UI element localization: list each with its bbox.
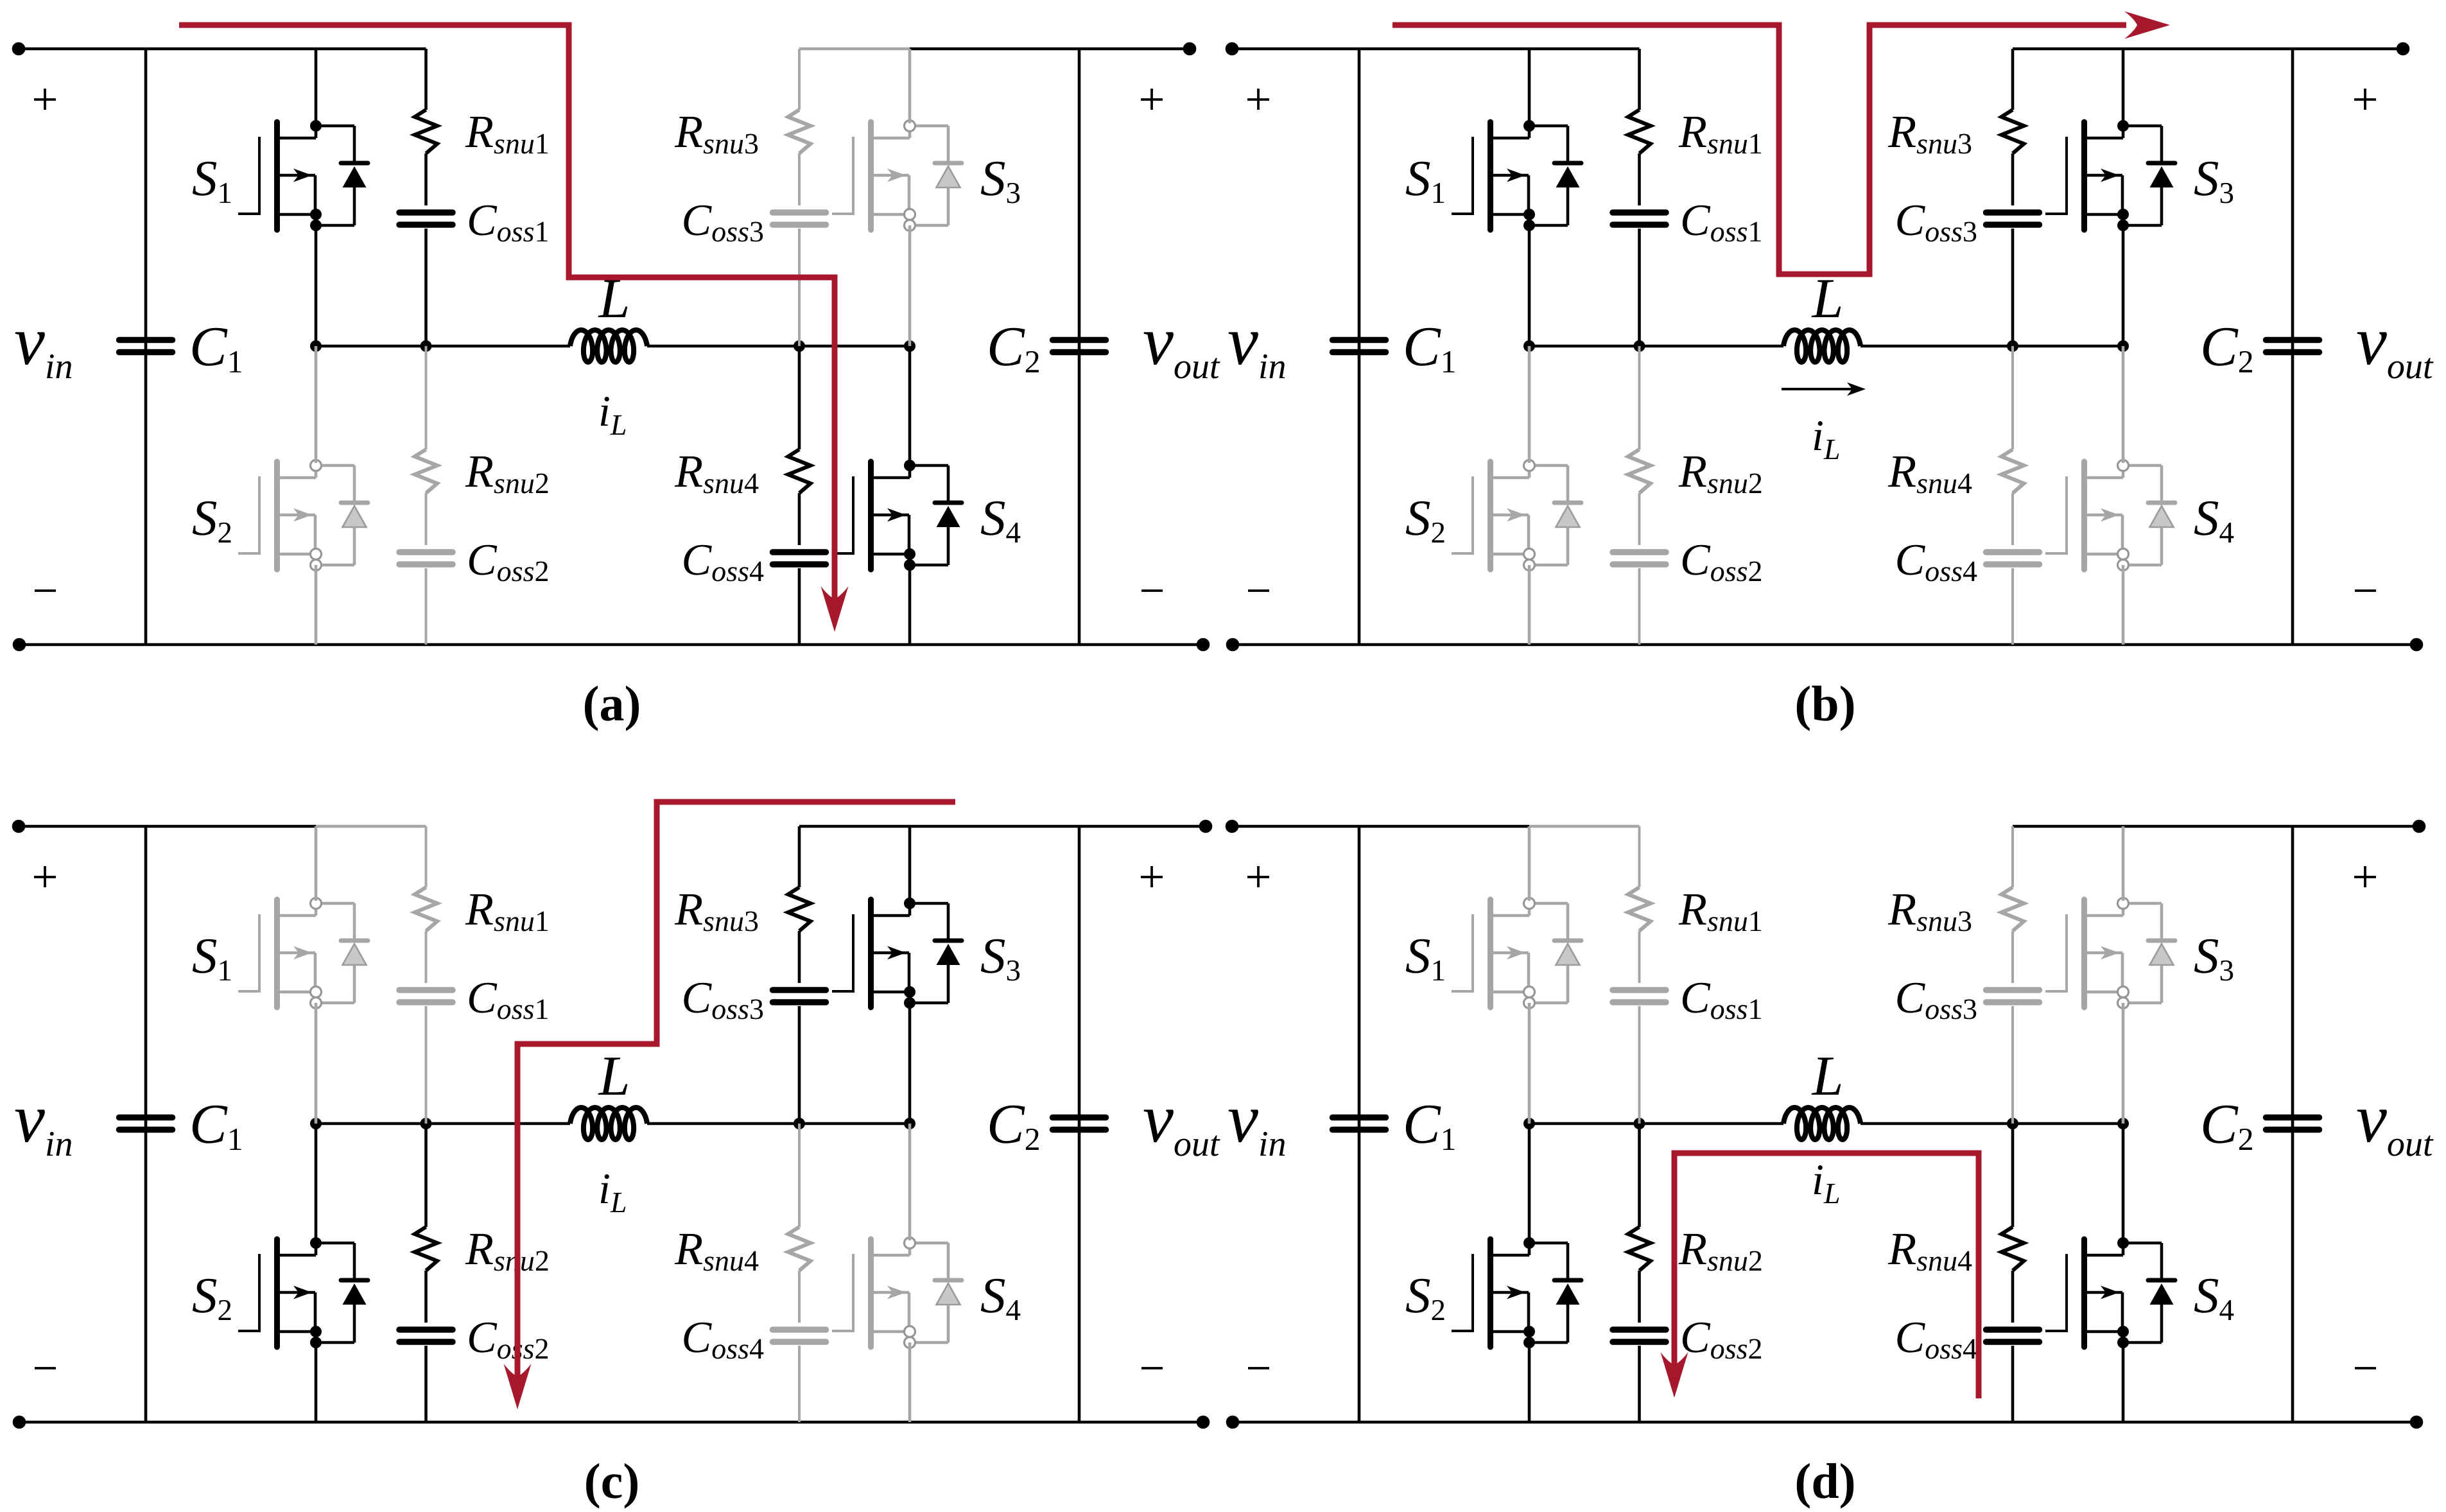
wire drain of S3 to top rail (b) [2122, 49, 2125, 123]
body diode of S4 (c) [910, 1243, 962, 1343]
wire source of S1 to switch node (b) [1528, 225, 1531, 346]
node bottom rail left (d) [1226, 1416, 1240, 1429]
plus sign vout (c) [1141, 876, 1163, 878]
transistor S4 (c) body [871, 1239, 910, 1347]
label L (a) [598, 280, 628, 317]
gate of S1 (a) [238, 137, 259, 215]
wire Rsnu2 top (d) [1638, 1124, 1641, 1227]
capacitor Coss2 (d) [1613, 1326, 1666, 1333]
body diode of S1 (b) [1529, 126, 1581, 225]
transistor S3 (d) body [2085, 899, 2124, 1007]
terminal circle drain of S2 (a) [311, 460, 322, 471]
wire top rail over S1 (a) [316, 48, 426, 51]
label Rsnu1 (d) [1679, 894, 1762, 932]
wire top rail right (a) [910, 48, 1190, 51]
arrow of S2 (a) [293, 508, 312, 522]
wire source of S3 to switch node (a) [908, 225, 912, 346]
wire source of S4 to bottom rail (d) [2122, 1343, 2125, 1422]
wire Coss4 bottom (b) [2011, 568, 2014, 645]
label Rsnu2 (c) [465, 1234, 548, 1271]
wire source of S2 to bottom rail (c) [315, 1343, 318, 1422]
plus sign vin (a) [34, 98, 56, 101]
label Rsnu1 (a) [465, 117, 548, 154]
label L (b) [1812, 280, 1841, 317]
wire drain of S1 to top rail (b) [1528, 49, 1531, 123]
wire top rail left (b) [1232, 48, 1529, 51]
wire C1 branch (a) [144, 49, 148, 645]
capacitor C1 (b) [1333, 337, 1386, 343]
node SW1 (d) [1523, 1118, 1535, 1129]
wire top rail right (c) [910, 825, 1206, 828]
label S3 (a) [981, 162, 1019, 204]
transistor S2 (a) body [277, 462, 317, 569]
wire source of S4 to bottom rail (b) [2122, 565, 2125, 645]
node drain of S1 (b) [1523, 120, 1535, 132]
label Coss1 (a) [469, 205, 548, 242]
wire Rsnu1 top (d) [1638, 826, 1641, 887]
label Rsnu4 (a) [675, 456, 759, 494]
arrow of S3 (c) [887, 946, 906, 960]
wire drain of S3 to top rail (a) [908, 49, 912, 123]
wire top rail left (a) [19, 48, 316, 51]
wire Rsnu4 top (d) [2011, 1124, 2015, 1227]
node SW1 (a) [310, 340, 322, 352]
body diode of S2 (a) [316, 465, 368, 565]
body diode of S4 (b) [2123, 465, 2175, 565]
wire Rsnu2 top (b) [1638, 346, 1641, 449]
wire source of S4 to bottom rail (a) [908, 565, 912, 645]
label Coss1 (d) [1683, 983, 1761, 1020]
current arrow (d) [1661, 1352, 1688, 1398]
label Coss3 (c) [684, 983, 763, 1020]
current arrow (c) [504, 1364, 532, 1409]
wire source of S1 to switch node (a) [315, 225, 318, 346]
transistor S1 (a) body [277, 122, 317, 230]
label Coss2 (a) [469, 545, 548, 582]
label Rsnu3 (c) [675, 894, 758, 932]
plus sign vin (d) [1247, 876, 1269, 878]
wire Rsnu3 top (a) [798, 49, 801, 110]
resistor Rsnu1 (d) [1628, 887, 1651, 931]
node top rail right (a) [1183, 42, 1197, 56]
node top rail left (d) [1226, 820, 1239, 833]
node drain of S2 (d) [1523, 1237, 1535, 1249]
label Rsnu3 (b) [1888, 117, 1972, 154]
arrow iL (b) [1782, 388, 1855, 390]
wire top rail left (c) [19, 825, 316, 828]
node drain of S1 (a) [310, 120, 322, 132]
body diode of S4 (d) [2123, 1243, 2175, 1343]
wire C1 branch (d) [1358, 826, 1361, 1422]
capacitor Coss2 (a) [399, 549, 453, 555]
wire top rail over S3 (c) [799, 825, 910, 828]
terminal circle drain of S3 (a) [905, 121, 915, 132]
label Rsnu1 (c) [465, 894, 548, 932]
node SW1-R (a) [421, 340, 432, 352]
terminal circle drain of S1 (d) [1524, 898, 1535, 909]
minus sign vout (b) [2355, 589, 2376, 592]
wire top rail over S1 (b) [1529, 48, 1640, 51]
wire drain of S4 to switch node (d) [2122, 1124, 2125, 1240]
node top rail left (b) [1226, 42, 1239, 56]
terminal circle drain of S1 (c) [311, 898, 322, 909]
resistor Rsnu1 (a) [415, 110, 437, 153]
wire switch-node rail (b) [1529, 345, 1783, 348]
wire Coss1 bottom (c) [425, 1006, 428, 1124]
wire switch-node rail (d) [1529, 1122, 1783, 1125]
wire Rsnu1 to Coss1 (a) [424, 153, 428, 205]
label Coss2 (b) [1683, 545, 1761, 582]
capacitor C2 (d) [2266, 1115, 2320, 1121]
node top rail left (a) [12, 42, 26, 56]
label Rsnu2 (b) [1679, 456, 1762, 494]
wire Rsnu1 top (a) [424, 49, 428, 110]
wire drain of S4 to switch node (b) [2122, 346, 2125, 463]
node bottom rail right (a) [1197, 638, 1210, 652]
wire Rsnu1 to Coss1 (c) [425, 931, 428, 983]
label Coss4 (a) [684, 545, 763, 582]
wire Rsnu3 to Coss3 (c) [798, 931, 801, 983]
node drain of S3 (c) [904, 898, 915, 909]
terminal circles source of S4 (b) [2118, 549, 2129, 560]
body diode of S3 (a) [910, 126, 962, 225]
label C2 (b) [2203, 328, 2252, 372]
resistor Rsnu3 (b) [2002, 110, 2024, 153]
arrow of S2 (d) [1507, 1286, 1525, 1299]
wire drain of S1 to top rail (c) [315, 826, 318, 901]
minus sign vout (d) [2355, 1367, 2376, 1369]
plus sign vout (b) [2354, 98, 2376, 101]
node SW1 (b) [1523, 340, 1535, 352]
wire source of S3 to switch node (b) [2122, 225, 2125, 346]
node SW2-R (c) [794, 1118, 805, 1129]
label C2 (d) [2203, 1106, 2252, 1150]
wire Coss3 bottom (b) [2011, 229, 2015, 346]
node SW2-R (d) [2007, 1118, 2018, 1129]
gate of S1 (d) [1452, 914, 1473, 993]
node top rail right (b) [2397, 42, 2410, 56]
wire switch-node rail (c) [316, 1122, 570, 1125]
gate of S1 (c) [238, 914, 259, 993]
node drain of S4 (a) [904, 460, 915, 471]
capacitor Coss1 (c) [399, 987, 453, 993]
wire drain of S2 to switch node (b) [1528, 346, 1531, 463]
wire Coss3 bottom (c) [798, 1006, 801, 1124]
transistor S4 (a) body [871, 462, 910, 569]
arrow of S1 (c) [293, 946, 312, 960]
wire source of S3 to switch node (c) [908, 1003, 912, 1124]
label Coss3 (d) [1897, 983, 1976, 1020]
wire drain of S2 to switch node (a) [315, 346, 318, 463]
plus sign vout (a) [1141, 98, 1163, 101]
terminal circles source of S2 (a) [311, 549, 322, 560]
capacitor Coss3 (c) [773, 987, 826, 993]
wire top rail left (d) [1232, 825, 1529, 828]
label S4 (d) [2194, 1279, 2233, 1320]
capacitor C2 (b) [2266, 337, 2320, 343]
inductor L (c) [570, 1108, 647, 1140]
label C1 (b) [1406, 328, 1455, 372]
plus sign vin (b) [1247, 98, 1269, 101]
label iL (a) [601, 397, 626, 435]
capacitor Coss3 (a) [773, 209, 826, 216]
wire C2 branch (b) [2291, 49, 2294, 645]
current path (a) [179, 25, 835, 615]
label S2 (b) [1406, 501, 1444, 543]
node top rail right (d) [2413, 820, 2426, 833]
gate of S1 (b) [1452, 137, 1473, 215]
wire drain of S1 to top rail (a) [315, 49, 318, 123]
wire Rsnu4 top (c) [798, 1124, 801, 1227]
label C1 (c) [193, 1106, 241, 1150]
arrow of S3 (a) [887, 169, 906, 182]
label S1 (a) [193, 162, 230, 203]
label Rsnu3 (d) [1888, 894, 1972, 932]
wire Coss1 bottom (d) [1638, 1006, 1641, 1124]
label Coss4 (d) [1897, 1323, 1977, 1359]
label Rsnu3 (a) [675, 117, 758, 154]
node bottom rail left (b) [1226, 638, 1240, 652]
terminal circle drain of S4 (b) [2118, 460, 2129, 471]
terminal circle drain of S4 (c) [905, 1238, 915, 1249]
node SW1-R (c) [421, 1118, 432, 1129]
label subfigure (d) [1797, 1463, 1853, 1509]
wire top rail right (b) [2123, 48, 2403, 51]
wire Coss4 bottom (d) [2011, 1346, 2015, 1422]
resistor Rsnu3 (d) [2002, 887, 2024, 931]
wire source of S2 to bottom rail (d) [1528, 1343, 1531, 1422]
label S3 (b) [2194, 162, 2233, 204]
wire Coss2 bottom (c) [424, 1346, 428, 1422]
capacitor Coss1 (b) [1613, 209, 1666, 216]
label vout (d) [2357, 1109, 2434, 1156]
capacitor Coss4 (d) [1986, 1326, 2040, 1333]
wire drain of S4 to switch node (c) [908, 1124, 912, 1240]
wire Rsnu3 top (b) [2011, 49, 2015, 110]
label vout (b) [2357, 332, 2434, 378]
node SW1-R (b) [1634, 340, 1645, 352]
wire C1 branch (b) [1358, 49, 1361, 645]
label iL (d) [1814, 1165, 1839, 1203]
resistor Rsnu1 (c) [415, 887, 437, 931]
wire drain of S2 to switch node (d) [1528, 1124, 1531, 1240]
body diode of S1 (c) [316, 903, 368, 1003]
resistor Rsnu4 (c) [788, 1227, 811, 1271]
label iL (c) [601, 1174, 626, 1212]
label Coss4 (b) [1897, 545, 1977, 582]
gate of S4 (c) [832, 1254, 853, 1332]
wire Rsnu1 to Coss1 (d) [1638, 931, 1641, 983]
arrow of S1 (a) [293, 169, 312, 182]
transistor S3 (a) body [871, 122, 910, 230]
arrow of S3 (d) [2101, 946, 2119, 960]
minus sign vin (d) [1248, 1367, 1269, 1369]
arrow of S4 (c) [887, 1286, 906, 1299]
node source of S2 (d) [1523, 1326, 1535, 1337]
capacitor C2 (c) [1053, 1115, 1106, 1121]
transistor S3 (c) body [871, 899, 910, 1007]
node bottom rail right (d) [2410, 1416, 2424, 1429]
arrow of S4 (d) [2101, 1286, 2119, 1299]
wire Rsnu3 top (d) [2011, 826, 2014, 887]
label vout (a) [1144, 332, 1220, 378]
minus sign vout (a) [1141, 589, 1163, 592]
wire Rsnu2 to Coss2 (a) [425, 493, 428, 545]
label vin (a) [15, 332, 72, 378]
node source of S3 (c) [904, 986, 915, 998]
current arrow (b) [2124, 12, 2170, 39]
wire Rsnu1 to Coss1 (b) [1638, 153, 1641, 205]
wire bottom rail (b) [1233, 643, 2416, 647]
arrow of S1 (b) [1507, 169, 1525, 182]
minus sign vout (c) [1141, 1367, 1163, 1369]
wire C1 branch (c) [144, 826, 148, 1422]
wire Rsnu4 top (a) [798, 346, 801, 449]
capacitor Coss3 (d) [1986, 987, 2040, 993]
node SW2 (d) [2117, 1118, 2129, 1129]
capacitor Coss1 (d) [1613, 987, 1666, 993]
wire bottom rail (d) [1233, 1421, 2416, 1424]
wire drain of S3 to top rail (d) [2122, 826, 2125, 901]
capacitor C1 (d) [1333, 1115, 1386, 1121]
resistor Rsnu4 (a) [788, 449, 811, 493]
gate of S4 (a) [832, 476, 853, 555]
node source of S2 (c) [310, 1326, 322, 1337]
wire Rsnu2 to Coss2 (d) [1638, 1271, 1641, 1323]
node SW2 (c) [904, 1118, 915, 1129]
arrow of S3 (b) [2101, 169, 2119, 182]
transistor S2 (d) body [1491, 1239, 1530, 1347]
capacitor Coss1 (a) [399, 209, 453, 216]
wire Rsnu4 to Coss4 (d) [2011, 1271, 2015, 1323]
capacitor C1 (a) [119, 337, 173, 343]
resistor Rsnu2 (b) [1628, 449, 1651, 493]
label S4 (b) [2194, 501, 2233, 543]
body diode of S1 (a) [316, 126, 368, 225]
wire Rsnu2 top (a) [425, 346, 428, 449]
wire Rsnu4 to Coss4 (b) [2011, 493, 2014, 545]
node bottom rail right (b) [2410, 638, 2424, 652]
wire drain of S4 to switch node (a) [908, 346, 912, 463]
label Coss3 (b) [1897, 205, 1976, 242]
node source of S4 (d) [2117, 1326, 2129, 1337]
minus sign vin (c) [35, 1367, 56, 1369]
capacitor Coss3 (b) [1986, 209, 2040, 216]
body diode of S3 (b) [2123, 126, 2175, 225]
wire top rail over S3 (b) [2013, 48, 2123, 51]
gate of S2 (d) [1452, 1254, 1473, 1332]
node SW2-R (b) [2007, 340, 2018, 352]
capacitor Coss4 (b) [1986, 549, 2040, 555]
current path (c) [517, 802, 955, 1392]
transistor S1 (c) body [277, 899, 317, 1007]
terminal circles source of S1 (d) [1524, 987, 1535, 998]
wire top rail right (d) [2123, 825, 2419, 828]
wire drain of S3 to top rail (c) [908, 826, 912, 901]
wire C2 branch (c) [1078, 826, 1081, 1422]
gate of S4 (d) [2045, 1254, 2067, 1332]
node top rail left (c) [12, 820, 26, 833]
wire source of S3 to switch node (d) [2122, 1003, 2125, 1124]
capacitor C2 (a) [1053, 337, 1106, 343]
transistor S1 (b) body [1491, 122, 1530, 230]
minus sign vin (a) [35, 589, 56, 592]
node SW2-R (a) [794, 340, 805, 352]
wire C2 branch (d) [2291, 826, 2294, 1422]
label Coss2 (c) [469, 1323, 548, 1359]
wire Rsnu2 top (c) [424, 1124, 428, 1227]
arrow of S4 (a) [887, 508, 906, 522]
inductor L (a) [570, 330, 647, 362]
wire Coss1 bottom (b) [1638, 229, 1641, 346]
wire Coss2 bottom (a) [425, 568, 428, 645]
body diode of S3 (d) [2123, 903, 2175, 1003]
transistor S4 (d) body [2085, 1239, 2124, 1347]
resistor Rsnu3 (a) [788, 110, 811, 153]
wire Coss3 bottom (a) [798, 229, 801, 346]
label S2 (d) [1406, 1279, 1444, 1320]
resistor Rsnu4 (d) [2002, 1227, 2024, 1271]
label S3 (c) [981, 939, 1019, 981]
wire Rsnu4 top (b) [2011, 346, 2014, 449]
label S4 (c) [981, 1279, 1020, 1320]
label Rsnu2 (a) [465, 456, 548, 494]
node source of S3 (b) [2117, 209, 2129, 220]
node source of S1 (b) [1523, 209, 1535, 220]
node SW2 (a) [904, 340, 915, 352]
current path (d) [1674, 1153, 1979, 1398]
body diode of S2 (b) [1529, 465, 1581, 565]
node bottom rail left (c) [13, 1416, 26, 1429]
body diode of S3 (c) [910, 903, 962, 1003]
label subfigure (c) [586, 1463, 638, 1509]
minus sign vin (b) [1248, 589, 1269, 592]
node SW2 (b) [2117, 340, 2129, 352]
terminal circles source of S4 (c) [905, 1326, 915, 1337]
wire top rail over S1 (c) [316, 825, 426, 828]
transistor S3 (b) body [2085, 122, 2124, 230]
terminal circles source of S3 (d) [2118, 987, 2129, 998]
wire source of S1 to switch node (c) [315, 1003, 318, 1124]
wire drain of S1 to top rail (d) [1528, 826, 1531, 901]
arrow of S2 (c) [293, 1286, 312, 1299]
arrow of S1 (d) [1507, 946, 1525, 960]
resistor Rsnu2 (c) [415, 1227, 437, 1271]
wire source of S2 to bottom rail (a) [315, 565, 318, 645]
wire Rsnu3 to Coss3 (b) [2011, 153, 2015, 205]
capacitor Coss4 (a) [773, 549, 826, 555]
node top rail right (c) [1199, 820, 1213, 833]
capacitor Coss4 (c) [773, 1326, 826, 1333]
body diode of S2 (c) [316, 1243, 368, 1343]
transistor S2 (b) body [1491, 462, 1530, 569]
label C2 (c) [990, 1106, 1039, 1150]
wire Rsnu4 to Coss4 (c) [798, 1271, 801, 1323]
terminal circle drain of S3 (d) [2118, 898, 2129, 909]
label vin (b) [1229, 332, 1285, 378]
label S3 (d) [2194, 939, 2233, 981]
capacitor C1 (c) [119, 1115, 173, 1121]
label Rsnu4 (c) [675, 1234, 759, 1271]
inductor L (d) [1783, 1108, 1861, 1140]
node source of S4 (a) [904, 548, 915, 560]
node drain of S3 (b) [2117, 120, 2129, 132]
terminal circles source of S1 (c) [311, 987, 322, 998]
current path (b) [1392, 25, 2126, 274]
terminal circles source of S3 (a) [905, 209, 915, 220]
wire Rsnu4 to Coss4 (a) [798, 493, 801, 545]
gate of S4 (b) [2045, 476, 2067, 555]
